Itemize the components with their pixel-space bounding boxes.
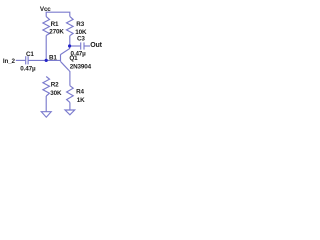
resistor R1 (43, 17, 50, 36)
transistor Q1 base bar (60, 54, 62, 62)
capacitor C1 (25, 56, 27, 64)
ground left (41, 112, 51, 118)
svg-text:2N3904: 2N3904 (70, 63, 92, 70)
svg-text:C3: C3 (77, 36, 85, 43)
wire R2 bottom to ground (45, 96, 47, 112)
wire R1 bottom to node B1 (45, 36, 47, 61)
svg-text:0.47µ: 0.47µ (20, 65, 36, 72)
svg-text:Out: Out (90, 42, 102, 49)
wire Vcc top rail (46, 12, 70, 16)
svg-text:R3: R3 (76, 21, 84, 28)
svg-text:30K: 30K (50, 90, 62, 97)
wire collector node to C3 (70, 45, 81, 47)
svg-text:R1: R1 (51, 21, 59, 28)
svg-text:Vcc: Vcc (40, 6, 51, 13)
capacitor C3 (80, 42, 82, 49)
ground right (65, 110, 75, 115)
svg-text:270K: 270K (49, 29, 64, 36)
svg-text:In_2: In_2 (3, 58, 16, 65)
wire C1 to base of Q1 (28, 59, 60, 61)
resistor R4 (67, 86, 74, 103)
resistor R3 (67, 16, 74, 35)
svg-text:1K: 1K (77, 97, 85, 104)
transistor Q1 emitter (61, 62, 70, 86)
wire input In_2 to C1 (16, 59, 26, 61)
transistor Q1 collector (61, 46, 70, 54)
wire R3 bottom to collector node (69, 36, 71, 46)
svg-text:C1: C1 (26, 51, 34, 58)
svg-text:R4: R4 (76, 89, 84, 96)
wire C3 to Out (84, 45, 90, 47)
resistor R2 (43, 77, 50, 97)
transistor Q1 emitter arrow (68, 69, 70, 71)
collector node junction dot (68, 44, 71, 47)
wire R4 bottom to ground (69, 102, 71, 110)
svg-text:R2: R2 (51, 81, 59, 88)
node B1 junction dot (45, 59, 48, 62)
svg-text:B1: B1 (49, 54, 57, 61)
svg-text:Q1: Q1 (69, 55, 78, 62)
